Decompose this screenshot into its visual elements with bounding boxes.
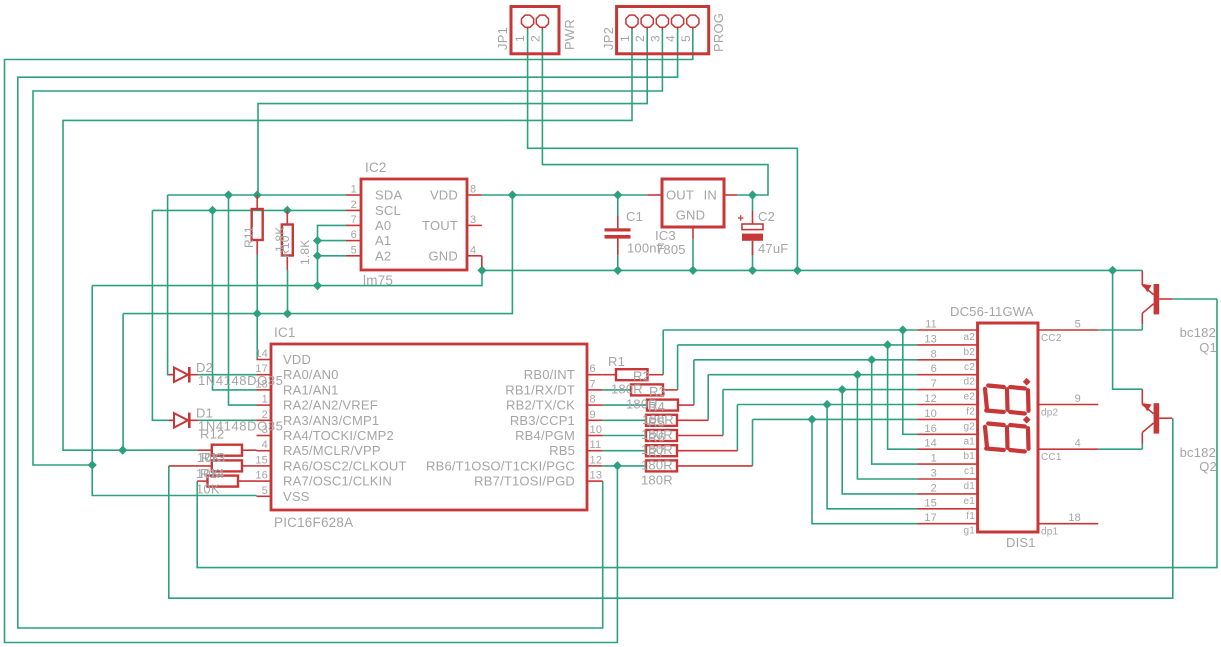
svg-text:PIC16F628A: PIC16F628A — [274, 515, 353, 530]
IC1 pin stub 4 RA5 — [257, 450, 272, 452]
wire segment dropper c1 x871.7 — [872, 360, 918, 464]
svg-text:3: 3 — [470, 214, 476, 226]
DIS1 pin stub CC1 — [1038, 448, 1098, 450]
wire R3 left gap — [603, 404, 647, 406]
display DIS1 DC56-11GWA box — [978, 323, 1038, 532]
svg-text:10: 10 — [924, 408, 937, 420]
svg-text:f1: f1 — [966, 511, 975, 522]
junction A2 — [313, 251, 322, 260]
junction segment pair b — [883, 340, 892, 349]
svg-text:100nF: 100nF — [627, 241, 665, 256]
connector JP2 pin 4 pad — [672, 15, 684, 27]
resistor R4 180R — [646, 415, 677, 426]
IC2 right pin stub 3 TOUT — [467, 224, 482, 226]
svg-text:10: 10 — [590, 424, 603, 436]
svg-text:TOUT: TOUT — [422, 218, 458, 233]
wire segment row e2 y389.6 — [723, 389, 918, 391]
svg-text:5: 5 — [1075, 319, 1081, 331]
C2 plus sign — [738, 217, 744, 219]
junction SDA-RA2 — [224, 190, 233, 199]
svg-text:g1: g1 — [963, 526, 975, 537]
svg-text:e2: e2 — [963, 392, 975, 403]
junction A-strap GND — [313, 281, 322, 290]
IC2 left pin stub 7 A0 — [346, 224, 361, 226]
wire +5V drop x123.1 to MCLR row — [122, 314, 124, 451]
DIS1 pin stub dp1 — [1038, 523, 1098, 525]
svg-text:OUT: OUT — [666, 188, 694, 203]
DIS1 digit 2 decimal point — [1023, 378, 1031, 386]
svg-text:1: 1 — [513, 35, 527, 42]
junction SCL-RA1 — [208, 206, 217, 215]
svg-text:RA4/TOCKI/CMP2: RA4/TOCKI/CMP2 — [283, 428, 394, 443]
IC3 OUT stub — [647, 194, 662, 196]
resistor R3 180R — [647, 400, 678, 411]
svg-text:VDD: VDD — [283, 352, 311, 367]
wire +5V rail y195 (lm75 VDD to IC3 OUT) — [482, 194, 647, 196]
svg-text:5: 5 — [679, 35, 693, 42]
svg-text:A0: A0 — [375, 218, 391, 233]
IC1 pin stub 12 RB6 — [587, 465, 603, 467]
diode D1 1N4148DO35 — [169, 419, 174, 421]
svg-text:4: 4 — [1075, 438, 1081, 450]
junction C1 bottom — [613, 266, 622, 275]
DIS1 pin stub f1 — [918, 508, 978, 510]
wire segment dropper d1 x857.4 — [857, 375, 917, 479]
junction segment pair f — [823, 400, 832, 409]
IC2 right pin stub 4 GND — [467, 255, 482, 257]
svg-text:RA1/AN1: RA1/AN1 — [283, 382, 339, 397]
DIS1 pin stub b2 — [918, 344, 978, 346]
wire D2 cathode to RA0 — [198, 374, 257, 376]
svg-text:A2: A2 — [375, 248, 391, 263]
junction SCL/R10 — [283, 206, 292, 215]
JP1 pin2 lead nub — [541, 28, 543, 30]
wire segment row f2 y404.5 — [737, 404, 917, 406]
wire R6 left gap — [603, 450, 646, 452]
svg-text:SCL: SCL — [375, 203, 401, 218]
svg-text:RB0/INT: RB0/INT — [524, 367, 575, 382]
svg-text:180R: 180R — [626, 397, 658, 412]
resistor R14 10K (RA7 to Q1 base) — [197, 480, 207, 482]
connector JP1 box — [511, 7, 559, 54]
svg-text:R1: R1 — [608, 354, 625, 369]
DIS1 pin stub c1 — [918, 463, 978, 465]
wire Q1 base link y299 — [1172, 298, 1217, 300]
svg-text:DIS1: DIS1 — [1006, 535, 1036, 550]
svg-text:14: 14 — [255, 348, 268, 360]
svg-text:18: 18 — [1068, 512, 1081, 524]
svg-text:47uF: 47uF — [758, 241, 788, 256]
DIS1 digit 2 segments (8) — [985, 386, 1029, 414]
svg-text:d1: d1 — [963, 481, 975, 492]
IC1 pin stub 2 RA3 — [257, 419, 272, 421]
wire segment dropper g1 x812 — [812, 419, 918, 523]
svg-text:17: 17 — [924, 512, 937, 524]
svg-text:9: 9 — [1075, 393, 1081, 405]
svg-text:VDD: VDD — [430, 188, 458, 203]
resistor R5 180R — [646, 430, 677, 441]
wire SCL drop x212.5 to RA1 — [213, 210, 257, 390]
svg-text:6: 6 — [590, 363, 596, 375]
IC2 GND pin elbow (red) — [481, 256, 483, 267]
svg-text:1N4148DO35: 1N4148DO35 — [198, 373, 284, 388]
wire segment dropper f1 x827.1 — [827, 405, 917, 509]
svg-text:180R: 180R — [641, 442, 673, 457]
svg-text:RB7/T1OSI/PGD: RB7/T1OSI/PGD — [474, 474, 575, 489]
connector JP2 box — [617, 7, 709, 54]
svg-text:GND: GND — [676, 208, 706, 223]
svg-text:CC1: CC1 — [1041, 452, 1062, 463]
wire segment row g2 y419.4 — [753, 418, 918, 420]
wire JP2.1-MCLR (y120.4, x63, RA5 row y450.2) — [63, 28, 632, 450]
DIS1 pin stub f2 — [918, 404, 978, 406]
wire SCL drop x152.4 to D1 anode — [152, 210, 174, 420]
wire C1 bottom link — [617, 239, 619, 271]
IC1 pin stub 7 RB1 — [587, 389, 603, 391]
svg-text:11: 11 — [590, 439, 602, 451]
svg-text:lm75: lm75 — [363, 273, 393, 288]
svg-text:a1: a1 — [963, 436, 975, 447]
svg-text:IC1: IC1 — [274, 325, 296, 340]
op-amp/sensor IC2 lm75 box — [361, 179, 467, 270]
wire SCL row y210.4 — [152, 209, 346, 211]
junction lm75 GND — [477, 266, 486, 275]
JP2 pin4 lead nub — [677, 28, 679, 30]
svg-text:c1: c1 — [964, 466, 975, 477]
svg-text:2: 2 — [633, 35, 647, 42]
wire R10 bottom lead link — [287, 270, 289, 314]
svg-text:3: 3 — [931, 468, 937, 480]
wire R2 left gap — [603, 389, 631, 391]
connector JP2 pin 5 pad — [687, 15, 699, 27]
IC2 left pin stub 6 A1 — [346, 240, 361, 242]
wire segment dropper a1 x902.8 — [903, 330, 918, 434]
DIS1 pin stub g1 — [918, 523, 978, 525]
wire R11 bottom lead link — [256, 255, 258, 314]
svg-text:d2: d2 — [963, 377, 975, 388]
wire JP2.3-GND (y91, x33, to RA6-row junction) — [33, 28, 662, 465]
svg-text:IC2: IC2 — [365, 160, 387, 175]
resistor R12 10K (MCLR pullup) — [197, 449, 212, 451]
svg-text:16: 16 — [924, 423, 937, 435]
svg-text:180R: 180R — [641, 457, 673, 472]
wire R5 riser x723 — [722, 390, 724, 436]
IC2 left pin stub 5 A2 — [346, 255, 361, 257]
svg-text:RA5/MCLR/VPP: RA5/MCLR/VPP — [283, 443, 381, 458]
svg-text:Q1: Q1 — [1199, 340, 1217, 355]
svg-text:3: 3 — [648, 35, 662, 42]
connector JP2 pin 3 pad — [656, 15, 668, 27]
wire SDA drop x167.6 to D2 anode — [168, 195, 174, 375]
IC1 pin stub 11 RB5 — [587, 450, 603, 452]
transistor Q2 bc182 — [1154, 403, 1160, 433]
IC3 GND stub — [692, 227, 694, 239]
junction MCLR pullup — [118, 446, 127, 455]
junction segment pair g — [807, 415, 816, 424]
svg-text:5: 5 — [351, 244, 357, 256]
svg-text:DC56-11GWA: DC56-11GWA — [950, 304, 1034, 319]
wire R4 riser x708.2 — [707, 375, 709, 421]
wire segment row d2 y374.7 — [708, 374, 917, 376]
resistor R10 1.8K (SCL pullup) — [286, 210, 288, 224]
svg-text:RA3/AN3/CMP1: RA3/AN3/CMP1 — [283, 413, 379, 428]
wire SDA drop x228.5 to RA2 — [229, 195, 257, 405]
svg-text:8: 8 — [470, 184, 476, 196]
wire JP2.4-PGD loop (y77.2, x17.8, y628, riser x602.7 to RB7) — [18, 28, 678, 628]
junction Q2 emitter branch — [1108, 266, 1117, 275]
svg-text:1: 1 — [618, 35, 632, 42]
svg-text:RB4/PGM: RB4/PGM — [515, 428, 575, 443]
wire Q2 collector teal tail — [1141, 443, 1143, 449]
wire GND rail y270.4 from lm75 pin4 to Q1 emitter — [482, 267, 1142, 271]
svg-text:IN: IN — [704, 188, 717, 203]
JP1 pin1 lead nub — [527, 28, 529, 30]
junction VDD pin14/R11 — [253, 309, 262, 318]
svg-text:16: 16 — [255, 470, 268, 482]
IC1 pin stub 14 VDD — [257, 359, 272, 361]
svg-text:RB5: RB5 — [549, 443, 575, 458]
wire R5 left gap — [603, 435, 646, 437]
junction +5V riser — [508, 190, 517, 199]
svg-text:dp1: dp1 — [1041, 527, 1059, 538]
resistor R11 1.8K (SDA pullup) — [256, 195, 258, 209]
svg-text:15: 15 — [255, 454, 268, 466]
svg-text:JP1: JP1 — [495, 27, 510, 50]
DIS1 pin stub a1 — [918, 433, 978, 435]
svg-text:CC2: CC2 — [1041, 333, 1062, 344]
IC1 pin stub 6 RB0 — [587, 374, 603, 376]
svg-text:RB2/TX/CK: RB2/TX/CK — [506, 398, 575, 413]
svg-text:C1: C1 — [626, 209, 643, 224]
DIS1 digit 1 decimal point — [1023, 416, 1031, 424]
wire GND drop x1112.6 to Q2 emitter — [1113, 270, 1143, 389]
junction segment pair e — [838, 385, 847, 394]
resistor R2 180R — [631, 384, 663, 395]
connector JP2 pin 1 pad — [626, 15, 638, 27]
junction R10 bottom — [283, 309, 292, 318]
svg-text:b2: b2 — [963, 347, 975, 358]
junction SDA/R11/JP2.2 — [253, 190, 262, 199]
wire C1 top link — [617, 195, 619, 216]
connector JP2 pin 2 pad — [641, 15, 653, 27]
DIS1 pin stub g2 — [918, 418, 978, 420]
wire CC2 link y330 — [1098, 329, 1142, 331]
svg-text:bc182: bc182 — [1180, 325, 1216, 340]
capacitor C2 47uF polarized — [752, 211, 754, 224]
wire SDA row y195 — [168, 194, 346, 196]
svg-text:12: 12 — [590, 454, 603, 466]
svg-text:7: 7 — [590, 378, 596, 390]
DIS1 pin stub a2 — [918, 329, 978, 331]
junction segment pair a — [898, 325, 907, 334]
IC1 pin stub 17 RA0 — [257, 374, 272, 376]
DIS1 pin stub CC2 — [1038, 329, 1098, 331]
svg-text:180R: 180R — [641, 427, 673, 442]
IC1 pin stub 1 RA2 — [257, 404, 272, 406]
JP2 pin2 lead nub — [646, 28, 648, 30]
DIS1 pin stub d1 — [918, 478, 978, 480]
svg-text:14: 14 — [924, 438, 937, 450]
IC2 right pin stub 8 VDD — [467, 194, 482, 196]
wire GND branch y285.6 under lm75 to left column — [92, 270, 482, 285]
svg-text:VSS: VSS — [283, 489, 310, 504]
wire JP2.2-SDA (y103.6, riser x258) — [258, 28, 647, 195]
svg-text:2: 2 — [529, 35, 543, 42]
wire segment row c2 y359.8 — [694, 359, 918, 361]
svg-text:c2: c2 — [964, 362, 975, 373]
svg-text:g2: g2 — [963, 421, 975, 432]
svg-text:C2: C2 — [758, 209, 775, 224]
JP2 pin3 lead nub — [661, 28, 663, 30]
svg-text:dp2: dp2 — [1041, 408, 1059, 419]
wire segment row b2 y344.9 — [678, 344, 918, 346]
svg-text:RB6/T1OSO/T1CKI/PGC: RB6/T1OSO/T1CKI/PGC — [426, 458, 575, 473]
svg-text:R14: R14 — [200, 466, 224, 481]
svg-text:bc182: bc182 — [1180, 445, 1216, 460]
DIS1 digit 1 segments (8) — [985, 424, 1029, 452]
svg-text:SDA: SDA — [375, 188, 402, 203]
junction A1 — [313, 236, 322, 245]
wire JP2.5-PGC loop (top y59.5, left x4.5, bottom y642.5, riser x617.4 to RB6) — [5, 28, 693, 643]
IC2 left pin stub 1 SDA — [346, 194, 361, 196]
svg-text:180R: 180R — [611, 381, 643, 396]
wire R4 left gap — [603, 419, 646, 421]
IC1 pin stub 5 VSS — [257, 495, 272, 497]
svg-text:R13: R13 — [201, 450, 225, 465]
IC1 pin stub 10 RB4 — [587, 435, 603, 437]
svg-text:7: 7 — [931, 378, 937, 390]
svg-text:PROG: PROG — [711, 13, 726, 52]
junction C1 top — [613, 190, 622, 199]
svg-text:9: 9 — [590, 409, 596, 421]
IC1 pin stub 9 RB3 — [587, 419, 603, 421]
wire C2 bottom link — [752, 241, 754, 271]
wire segment dropper b1 x887.6 — [888, 345, 918, 449]
resistor R13 10K (RA6 to Q2 base) — [169, 465, 212, 467]
svg-text:GND: GND — [429, 248, 459, 263]
DIS1 pin stub e1 — [918, 493, 978, 495]
DIS1 pin stub dp2 — [1038, 404, 1098, 406]
svg-text:11: 11 — [925, 319, 937, 331]
svg-text:JP2: JP2 — [601, 27, 616, 50]
svg-text:A1: A1 — [375, 233, 391, 248]
svg-text:6: 6 — [351, 229, 357, 241]
IC1 pin stub 15 RA6 — [257, 465, 272, 467]
svg-text:2: 2 — [931, 482, 937, 494]
svg-text:RA6/OSC2/CLKOUT: RA6/OSC2/CLKOUT — [283, 458, 407, 473]
DIS1 pin stub d2 — [918, 374, 978, 376]
svg-text:RA0/AN0: RA0/AN0 — [283, 367, 339, 382]
IC1 pin stub 18 RA1 — [257, 389, 272, 391]
connector JP1 pin 1 pad — [522, 15, 534, 27]
svg-text:4: 4 — [262, 439, 268, 451]
junction segment pair d — [853, 370, 862, 379]
IC2 left pin stub 2 SCL — [346, 209, 361, 211]
wire R7 left gap — [603, 465, 646, 467]
wire CC1 link y449.2 — [1098, 448, 1142, 450]
svg-text:RB1/RX/DT: RB1/RX/DT — [505, 382, 575, 397]
DIS1 pin stub b1 — [918, 448, 978, 450]
wire R7 riser x752.5 — [752, 419, 754, 466]
DIS1 pin stub c2 — [918, 359, 978, 361]
wire Q1 collector teal tail — [1141, 323, 1143, 330]
wire segment dropper e1 x842.2 — [842, 390, 917, 494]
svg-text:7: 7 — [351, 214, 357, 226]
wire GND riser x92.2 and VSS row y495.5 — [92, 286, 256, 496]
svg-text:RB3/CCP1: RB3/CCP1 — [510, 413, 575, 428]
svg-text:4: 4 — [664, 35, 678, 42]
svg-text:b1: b1 — [963, 451, 975, 462]
wire lm75 A1 stub link — [318, 240, 347, 242]
svg-text:1: 1 — [351, 184, 357, 196]
wire D1 cathode to RA3 — [198, 419, 257, 421]
junction JP1.1 GND — [793, 266, 802, 275]
junction RB6/PGC — [613, 461, 622, 470]
svg-text:R10: R10 — [278, 235, 292, 258]
svg-text:1: 1 — [262, 394, 268, 406]
svg-text:R12: R12 — [200, 427, 224, 442]
junction IC3 GND — [688, 266, 697, 275]
IC1 pin stub 13 RB7 — [587, 480, 603, 482]
wire R2 riser x677.6 — [677, 345, 679, 390]
svg-text:1.8K: 1.8K — [298, 240, 312, 266]
microcontroller IC1 PIC16F628A box — [271, 344, 587, 510]
svg-text:12: 12 — [924, 393, 937, 405]
svg-text:4: 4 — [470, 244, 476, 256]
svg-text:2: 2 — [351, 199, 357, 211]
wire IC3 GND link — [692, 239, 694, 270]
junction C2 bottom — [748, 266, 757, 275]
svg-text:8: 8 — [931, 348, 937, 360]
transistor Q1 bc182 — [1154, 284, 1160, 314]
svg-text:13: 13 — [590, 470, 603, 482]
junction C2 top/IN — [748, 190, 757, 199]
wire RA6-Q2 base (x168.8, y598.2, riser x1172.8) — [169, 418, 1173, 598]
svg-text:15: 15 — [924, 497, 937, 509]
svg-text:180R: 180R — [641, 473, 673, 488]
capacitor C1 100nF — [617, 216, 619, 228]
svg-text:5: 5 — [262, 485, 268, 497]
diode D2 1N4148DO35 — [169, 374, 174, 376]
IC1 pin stub 3 RA4 — [257, 435, 272, 437]
svg-text:PWR: PWR — [562, 19, 577, 50]
wire RA7-Q1 base (x197.2, y567.6, riser x1217) — [197, 299, 1217, 568]
svg-text:e1: e1 — [963, 496, 975, 507]
svg-text:8: 8 — [590, 394, 596, 406]
svg-text:13: 13 — [924, 333, 937, 345]
resistor R1 180R — [603, 374, 616, 376]
wire R1 riser x663.2 — [662, 330, 664, 375]
junction segment pair c — [867, 355, 876, 364]
svg-text:a2: a2 — [963, 332, 975, 343]
svg-text:180R: 180R — [642, 412, 674, 427]
wire C2 top link — [752, 195, 754, 211]
wire JP1.1-GND (y148.3, riser x797.4) — [528, 28, 798, 270]
wire lm75 A2 stub link — [318, 255, 347, 257]
wire R3 riser x693.9 — [693, 360, 695, 405]
svg-text:R11: R11 — [242, 226, 256, 248]
svg-text:Q2: Q2 — [1199, 459, 1217, 474]
JP2 pin5 lead nub — [692, 28, 694, 30]
JP2 pin1 lead nub — [631, 28, 633, 30]
IC1 pin stub 16 RA7 — [257, 480, 272, 482]
svg-text:10K: 10K — [196, 482, 220, 497]
wire segment row a2 y330 — [663, 329, 917, 331]
resistor R7 180R — [646, 460, 677, 471]
junction JP2.3/VSS — [88, 460, 97, 469]
IC3 IN stub — [724, 194, 737, 196]
wire lm75 A0 riser x317.5 — [318, 225, 347, 285]
